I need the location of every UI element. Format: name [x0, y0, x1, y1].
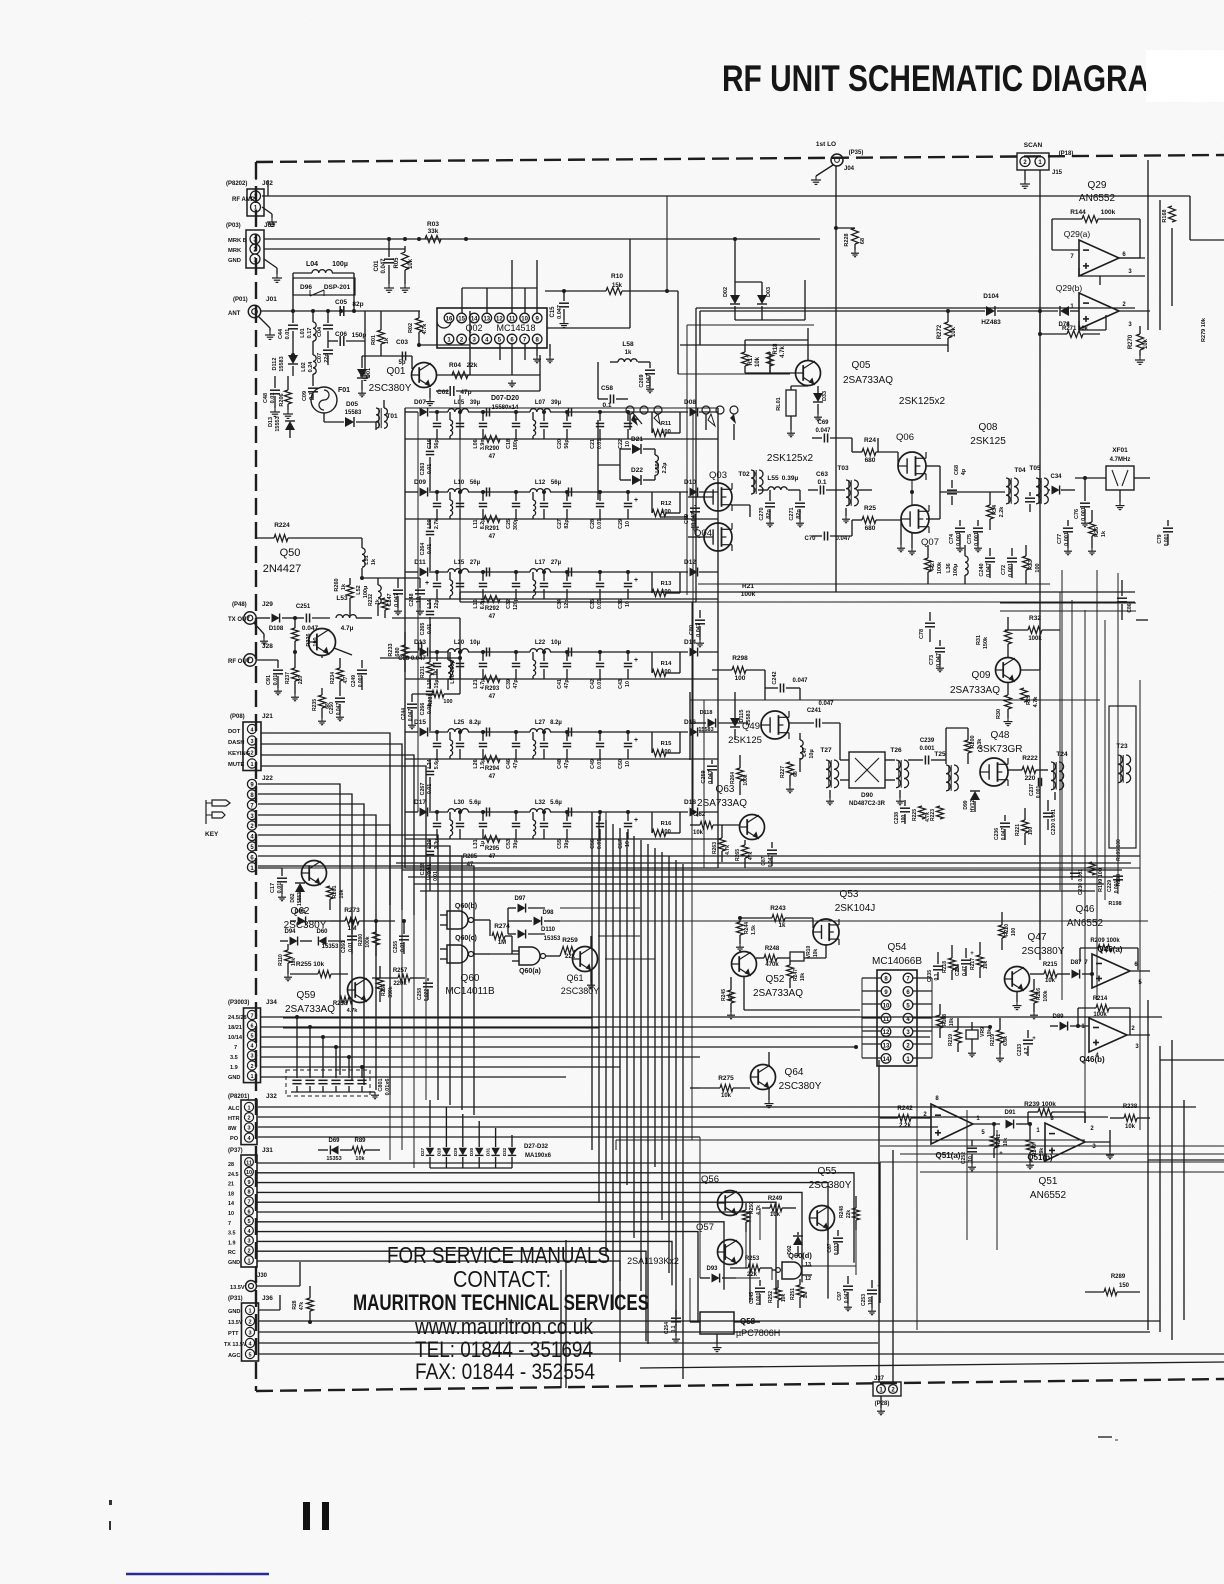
svg-text:R265: R265 [735, 849, 741, 861]
svg-text:C29: C29 [618, 519, 624, 529]
diode D118 15583 [690, 710, 748, 733]
ground at J04 [811, 165, 833, 184]
svg-text:1.9: 1.9 [230, 1065, 238, 1071]
title text RF UNIT SCHEMATIC DIAGRAM [722, 50, 1224, 102]
svg-text:R259: R259 [562, 937, 578, 944]
wires Q54 left pins [862, 978, 881, 1058]
label R195 100k [1116, 839, 1122, 861]
svg-text:0.01: 0.01 [597, 679, 603, 689]
svg-text:C253: C253 [861, 1294, 867, 1306]
svg-text:100µ: 100µ [953, 564, 959, 576]
svg-text:R28: R28 [292, 1300, 298, 1309]
text CONTACT: [453, 1266, 551, 1292]
svg-text:D05: D05 [346, 401, 358, 408]
svg-text:R243: R243 [770, 905, 786, 912]
text FOR SERVICE MANUALS [387, 1242, 610, 1268]
svg-text:10: 10 [625, 841, 631, 847]
connector J30 13.5V [230, 1262, 300, 1292]
svg-text:0.01: 0.01 [348, 942, 354, 952]
KEY jack symbol [205, 800, 230, 838]
svg-text:4.7: 4.7 [343, 676, 349, 683]
svg-text:D95: D95 [294, 909, 306, 915]
connector J04 1st LO (P35) [816, 141, 863, 172]
svg-text:1k: 1k [375, 599, 381, 605]
svg-text:D60: D60 [316, 929, 328, 935]
svg-text:100: 100 [1028, 827, 1034, 836]
page mark bars [109, 1500, 329, 1530]
svg-text:Q55: Q55 [818, 1166, 837, 1177]
svg-text:C28: C28 [590, 519, 596, 529]
svg-text:L26: L26 [473, 759, 479, 768]
svg-text:C72: C72 [1001, 565, 1007, 575]
svg-text:D14: D14 [684, 639, 696, 646]
resistor R252 10k [768, 1280, 787, 1308]
svg-text:L05: L05 [454, 400, 465, 406]
svg-text:39µ: 39µ [470, 400, 481, 406]
capacitor C73 0.047 [929, 640, 945, 672]
svg-text:GND: GND [228, 1309, 240, 1315]
transistor Q61 2SC380Y [561, 936, 600, 996]
svg-text:R295: R295 [485, 846, 500, 852]
fuse F01 [311, 387, 350, 413]
diode D22 [620, 467, 655, 485]
svg-text:10k: 10k [983, 961, 989, 970]
wire TX cluster rails [256, 538, 462, 694]
capacitor C252 10 [961, 1140, 977, 1171]
svg-text:8.2µ: 8.2µ [469, 720, 481, 726]
label 2SK125x2 for Q03 Q04 [767, 453, 814, 464]
svg-text:D11: D11 [414, 559, 426, 566]
svg-text:R292: R292 [485, 606, 500, 612]
svg-text:C87: C87 [761, 856, 767, 865]
diode D87 [1068, 960, 1094, 979]
svg-text:14: 14 [228, 1201, 234, 1207]
svg-text:R02: R02 [408, 323, 414, 333]
svg-text:R217: R217 [970, 958, 976, 970]
svg-text:11: 11 [246, 1160, 252, 1166]
relay RL01 [776, 385, 808, 437]
wire SCAN down [1039, 170, 1041, 960]
wire bundle from J31 band switch lines [257, 1163, 880, 1341]
svg-text:0.047: 0.047 [302, 625, 319, 632]
svg-text:R237: R237 [285, 672, 291, 684]
wire long vertical from Q01 area down [459, 395, 461, 602]
svg-text:L36: L36 [946, 563, 952, 572]
svg-text:R235: R235 [312, 699, 318, 711]
resistor R02 4.7k [408, 311, 428, 347]
svg-text:R05: R05 [394, 257, 400, 269]
svg-text:R239 100k: R239 100k [1024, 1101, 1056, 1108]
svg-text:1M: 1M [498, 940, 506, 946]
svg-text:R188: R188 [1116, 874, 1122, 886]
svg-text:2: 2 [250, 1064, 253, 1070]
svg-text:C63: C63 [816, 471, 828, 478]
svg-text:R16: R16 [661, 821, 672, 827]
svg-text:1M: 1M [803, 1292, 809, 1299]
svg-text:Q29(a): Q29(a) [1064, 229, 1091, 239]
ground at Q51b [1106, 1142, 1114, 1159]
svg-text:56p: 56p [434, 439, 440, 449]
resistor R273 1M [330, 907, 395, 932]
svg-text:CONTACT:: CONTACT: [453, 1266, 551, 1292]
resistor R29 4.7k [1021, 688, 1040, 707]
svg-text:2.7k: 2.7k [434, 519, 440, 529]
label Q60 MC14011B [445, 973, 495, 997]
svg-text:RF AMP: RF AMP [232, 197, 255, 203]
svg-text:C41: C41 [557, 679, 563, 689]
svg-text:R293: R293 [485, 686, 500, 692]
svg-text:100k: 100k [1043, 990, 1049, 1001]
svg-text:Q52: Q52 [766, 974, 785, 985]
capacitor C71 cap [1025, 492, 1035, 512]
svg-text:R230: R230 [428, 693, 434, 706]
svg-text:R260: R260 [334, 578, 340, 591]
svg-text:47k: 47k [299, 1302, 305, 1311]
resistor R219b 6.8k [990, 1018, 1009, 1062]
svg-text:C56: C56 [590, 839, 596, 849]
svg-text:C43: C43 [618, 679, 624, 689]
svg-text:0.001: 0.001 [956, 532, 962, 546]
svg-text:C91: C91 [266, 675, 272, 685]
svg-text:D07: D07 [414, 399, 426, 406]
svg-text:0.01: 0.01 [400, 942, 406, 952]
svg-text:C36: C36 [618, 599, 624, 609]
svg-text:L55: L55 [767, 475, 779, 482]
svg-text:390k: 390k [388, 986, 394, 997]
svg-text:C27: C27 [557, 519, 563, 529]
resistor R259 22k [560, 937, 578, 960]
svg-text:KEY: KEY [205, 831, 219, 838]
resistor R256 390k [377, 966, 395, 1002]
svg-text:2SK125: 2SK125 [970, 436, 1006, 447]
svg-text:L12: L12 [535, 480, 546, 486]
svg-text:C76: C76 [1074, 509, 1080, 519]
text TEL: 01844 - 351694 [415, 1337, 593, 1362]
wire right inner vertical bundle [1105, 620, 1140, 1130]
svg-text:47p: 47p [460, 389, 471, 396]
svg-text:120p: 120p [513, 597, 519, 610]
resistor R03 33k [425, 221, 441, 243]
svg-text:R13: R13 [661, 581, 672, 587]
svg-text:Q47: Q47 [1028, 932, 1047, 943]
svg-text:10k: 10k [408, 258, 414, 269]
svg-text:0.047: 0.047 [1001, 828, 1007, 841]
svg-text:2SA733AQ: 2SA733AQ [753, 988, 803, 999]
svg-text:18: 18 [228, 1191, 234, 1197]
svg-text:C75: C75 [967, 534, 973, 544]
svg-text:D32: D32 [502, 1147, 507, 1156]
svg-text:2SK104J: 2SK104J [835, 903, 876, 914]
inductor L02 0.24u [301, 355, 316, 385]
svg-text:ND487C2-3R: ND487C2-3R [849, 801, 886, 807]
diode row D27-D32 MA190x6 [420, 1100, 552, 1168]
resistor R144 100k [1052, 209, 1140, 250]
svg-text:6: 6 [250, 1023, 253, 1029]
svg-text:R264: R264 [730, 772, 736, 784]
svg-text:C244: C244 [401, 708, 407, 720]
resistor R110 10k [278, 944, 297, 981]
svg-text:R251: R251 [790, 1288, 796, 1300]
diode D13 15553 [268, 416, 295, 438]
svg-text:1k: 1k [384, 337, 390, 344]
svg-text:10k: 10k [1143, 338, 1149, 349]
svg-text:C69: C69 [817, 420, 829, 426]
svg-text:Q63: Q63 [716, 784, 735, 795]
wire lower right horizontals [880, 1146, 1224, 1172]
diode D69 15353 [318, 1138, 352, 1162]
resistor R285 and C269 bottom of filter [426, 854, 478, 881]
svg-text:10: 10 [625, 521, 631, 527]
capacitor C230b 0.001 [1070, 869, 1084, 895]
svg-text:L31: L31 [473, 839, 479, 848]
svg-text:R225: R225 [912, 809, 918, 821]
svg-text:1: 1 [248, 1308, 251, 1314]
connector J22 pins [247, 775, 273, 872]
svg-text:R30: R30 [996, 709, 1002, 719]
NAND gate Q60(c) [440, 935, 490, 963]
wire bundle from J34 band lines [261, 1017, 1162, 1077]
capacitor C242 0.047 [765, 670, 808, 700]
svg-text:0.047: 0.047 [818, 701, 834, 707]
capacitor C235 0.1 [927, 952, 943, 982]
svg-text:+: + [1032, 1036, 1036, 1042]
svg-text:Q29: Q29 [1088, 180, 1107, 191]
svg-text:D02: D02 [723, 287, 729, 297]
svg-text:0.01: 0.01 [597, 839, 603, 849]
svg-text:100: 100 [1011, 928, 1017, 937]
svg-text:R168: R168 [1162, 209, 1168, 222]
transformer T25 [934, 751, 958, 791]
op-amp Q29(a) [1052, 219, 1145, 285]
svg-text:T03: T03 [837, 465, 849, 472]
capacitor C233 4.7 [1017, 1030, 1036, 1056]
svg-text:R199 100: R199 100 [1098, 868, 1104, 892]
wire right mid box around T23 [1000, 570, 1136, 1000]
capacitor C17 0.01 [258, 868, 287, 901]
svg-text:14: 14 [471, 317, 478, 323]
wire bundle from J32 [258, 1107, 1196, 1137]
svg-text:R272: R272 [937, 324, 943, 339]
svg-text:0.047: 0.047 [696, 623, 702, 637]
diode D112 15583 [272, 353, 298, 376]
resistor R244 1.5k [736, 916, 757, 951]
resistor R250 4.7k [743, 1202, 763, 1232]
wire Q03/Q04 gate feeds [660, 497, 750, 537]
svg-text:C48: C48 [263, 393, 269, 403]
connector J32 (P8201) [228, 1093, 277, 1145]
svg-text:R206: R206 [279, 393, 285, 406]
svg-text:C235: C235 [927, 970, 933, 982]
svg-text:R291: R291 [485, 526, 500, 532]
svg-text:0.001: 0.001 [1064, 532, 1070, 546]
op-amp Q51(a) [923, 1096, 1000, 1160]
capacitor C15 0.047 [550, 291, 569, 328]
svg-text:100k: 100k [1101, 209, 1116, 216]
svg-text:1st LO: 1st LO [816, 141, 836, 148]
svg-text:R244: R244 [744, 922, 750, 934]
label Q51 AN6552 [1030, 1176, 1067, 1201]
transistor Q06 2SK125 [896, 432, 926, 480]
svg-text:C58: C58 [601, 385, 613, 392]
capacitor C260 0.01 [341, 919, 357, 954]
svg-text:D110: D110 [541, 927, 556, 933]
svg-text:Q49: Q49 [742, 721, 760, 732]
svg-text:PO: PO [230, 1136, 239, 1142]
resistor R222 220 [1008, 755, 1048, 782]
svg-text:D12: D12 [684, 559, 696, 566]
svg-text:R279 10k: R279 10k [1201, 317, 1207, 342]
svg-text:82p: 82p [766, 509, 772, 519]
svg-text:C238: C238 [894, 812, 900, 824]
resistor R17 10k [742, 328, 809, 373]
svg-text:ALC: ALC [228, 1106, 240, 1112]
svg-text:L06: L06 [473, 439, 479, 448]
svg-text:47p: 47p [564, 759, 570, 769]
capacitor C258 0.022 [417, 978, 433, 1001]
svg-text:R220: R220 [1004, 924, 1010, 936]
resistor R01 1k [371, 311, 390, 356]
svg-text:R234: R234 [330, 672, 336, 684]
svg-text:22k: 22k [747, 1272, 758, 1278]
resistor R33 100 [1023, 545, 1042, 584]
svg-text:MUTE: MUTE [228, 762, 245, 768]
capacitor C250 0.047 [329, 694, 345, 721]
svg-text:100k: 100k [743, 774, 749, 785]
svg-text:AN6552: AN6552 [1079, 193, 1116, 204]
wires IC pins up [462, 260, 537, 313]
resistor R89 10k [352, 1138, 380, 1162]
svg-text:C04: C04 [317, 326, 323, 337]
svg-text:J28: J28 [262, 643, 273, 650]
capacitor C77 0.001 [1057, 520, 1073, 555]
svg-text:Q48: Q48 [991, 730, 1010, 741]
svg-text:10µ: 10µ [551, 640, 562, 646]
svg-text:R248: R248 [765, 946, 780, 952]
label R188 [1116, 874, 1122, 886]
svg-text:0.001: 0.001 [358, 675, 364, 688]
diode D98 [508, 910, 560, 926]
connector J15 SCAN (P18) [1017, 142, 1073, 176]
wire collector bus [419, 311, 470, 375]
resistor R243 1k [740, 905, 826, 929]
inductor L52 100u [356, 578, 381, 616]
ground at J15 [1020, 170, 1030, 188]
svg-text:J22: J22 [262, 775, 273, 782]
filter bank frame [405, 408, 718, 868]
svg-text:L07: L07 [535, 400, 546, 406]
inductor L50 100u [448, 650, 456, 690]
svg-text:C255: C255 [393, 941, 399, 953]
svg-text:0.047: 0.047 [557, 305, 563, 319]
svg-text:Q29(b): Q29(b) [1056, 283, 1083, 293]
capacitor C234 0.47 [955, 948, 974, 976]
svg-text:T27: T27 [820, 747, 832, 754]
svg-text:ANT: ANT [228, 311, 241, 317]
svg-text:0.047: 0.047 [336, 703, 342, 716]
svg-text:0.022: 0.022 [424, 989, 430, 1002]
svg-text:+: + [634, 497, 638, 504]
svg-text:(P08): (P08) [230, 714, 245, 720]
svg-text:www.mauritron.co.uk: www.mauritron.co.uk [414, 1314, 594, 1339]
transistor Q04 2SK125 [694, 523, 732, 551]
svg-text:C254: C254 [664, 1322, 670, 1334]
resistor R245 10k [721, 977, 735, 1019]
svg-text:L21: L21 [473, 679, 479, 688]
wires Q06 sources and grounds [897, 452, 916, 555]
svg-text:10k: 10k [781, 1294, 787, 1303]
svg-text:Q02: Q02 [465, 323, 482, 333]
capacitor C239 0.001 [908, 738, 946, 765]
svg-text:C260: C260 [341, 941, 347, 953]
svg-text:0.01: 0.01 [597, 599, 603, 609]
diode D115 15583 [730, 692, 752, 740]
svg-text:1: 1 [250, 1074, 253, 1080]
svg-text:L01: L01 [300, 328, 306, 337]
svg-text:2SK125: 2SK125 [728, 735, 762, 746]
svg-text:L17: L17 [535, 560, 546, 566]
svg-text:R21: R21 [742, 583, 754, 590]
svg-text:10k: 10k [693, 830, 704, 836]
svg-text:R110: R110 [278, 954, 284, 966]
svg-text:39p: 39p [513, 839, 519, 849]
wire mid horizontal buses [283, 812, 606, 1028]
svg-text:82p: 82p [564, 519, 570, 529]
resistor R198 right edge [1108, 901, 1121, 907]
svg-text:47: 47 [489, 854, 496, 860]
wire long rails under RF amp [460, 584, 1135, 602]
svg-text:100: 100 [313, 637, 319, 646]
svg-text:4.7MHz: 4.7MHz [1110, 457, 1131, 463]
svg-text:R10: R10 [611, 273, 623, 280]
svg-text:13: 13 [483, 317, 490, 323]
diode D21 [620, 436, 655, 454]
svg-text:47p: 47p [513, 679, 519, 689]
resistor R255 10k [290, 961, 348, 978]
svg-text:0.1: 0.1 [817, 479, 826, 486]
connector J03 (P03) [226, 222, 275, 268]
resistor R271 10k [1038, 326, 1100, 338]
capacitor C03 5p [396, 339, 408, 366]
svg-text:2.2k: 2.2k [999, 506, 1005, 518]
svg-text:µPC7806H: µPC7806H [736, 1328, 780, 1338]
svg-text:22µ: 22µ [434, 600, 440, 609]
svg-text:C48: C48 [557, 759, 563, 769]
resistor R272 10k [937, 309, 957, 345]
svg-text:56µ: 56µ [470, 480, 481, 486]
svg-text:0.01: 0.01 [427, 464, 433, 474]
svg-text:10k: 10k [949, 1018, 955, 1027]
svg-text:C239: C239 [920, 738, 935, 744]
svg-text:2SA733AQ: 2SA733AQ [843, 375, 893, 386]
relay switch contacts S1a [626, 406, 662, 426]
resistor R239 100k [1024, 1101, 1085, 1124]
svg-text:(P03): (P03) [226, 223, 241, 229]
capacitor C78 cap [919, 612, 935, 642]
svg-text:13: 13 [883, 1044, 890, 1050]
svg-text:D27: D27 [420, 1147, 425, 1156]
svg-text:(P31): (P31) [228, 1296, 243, 1302]
wire MRK net [264, 246, 405, 249]
label 2SA1193Kx2 [627, 1256, 679, 1266]
svg-text:0.047: 0.047 [986, 563, 992, 577]
svg-text:C266: C266 [420, 703, 426, 716]
svg-text:0.39µ: 0.39µ [782, 475, 799, 482]
svg-text:14: 14 [883, 1057, 890, 1063]
svg-text:0.047: 0.047 [815, 428, 831, 434]
svg-text:100k: 100k [365, 936, 371, 947]
svg-text:C46: C46 [506, 759, 512, 769]
resistor R289 150 [1085, 1274, 1140, 1296]
